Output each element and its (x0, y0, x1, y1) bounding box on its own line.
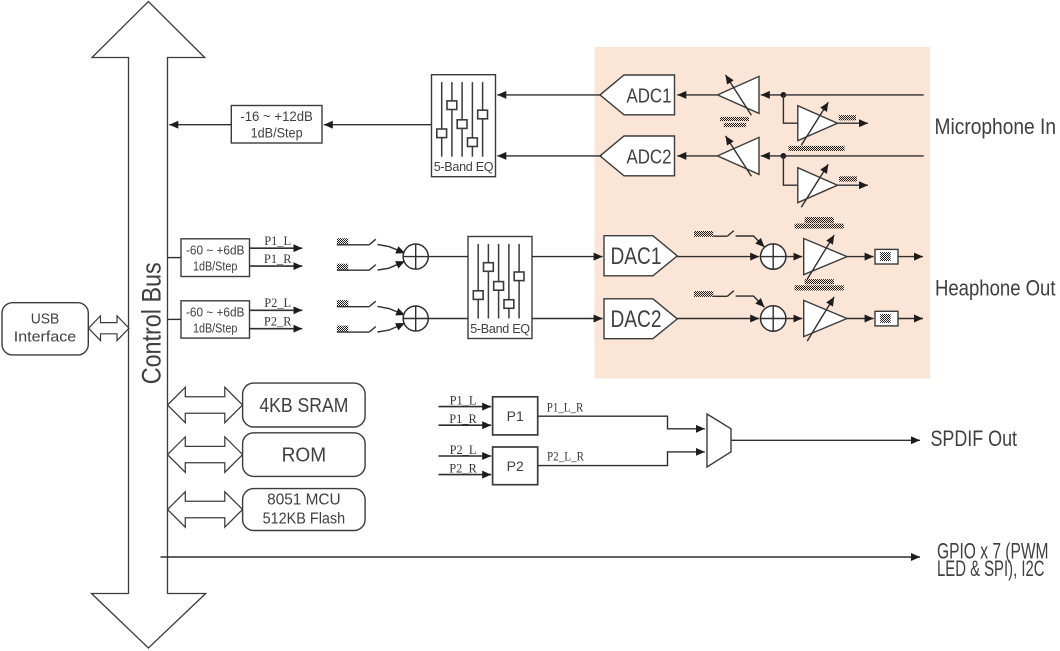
control bus arrow (92, 2, 206, 649)
bidirectional arrow bus to MCU (168, 492, 243, 528)
svg-text:DAC2: DAC2 (611, 306, 662, 333)
wire P2_L to packer (439, 455, 492, 457)
summing node mixer 1 (403, 244, 428, 269)
mic preamp 1 (798, 102, 838, 145)
switch mix P1_R redacted label (337, 264, 348, 271)
svg-text:Control Bus: Control Bus (136, 262, 166, 384)
mic preamp 2 (798, 164, 838, 207)
bidirectional arrow bus to SRAM (168, 387, 243, 423)
equalizer block playback EQ (5-Band EQ) (468, 237, 532, 339)
pixelated label preamp 1 gain (839, 115, 856, 120)
summing node headphone 2 (761, 306, 786, 331)
svg-text:P2_R: P2_R (264, 314, 292, 328)
wire mic preamp 2 output (838, 184, 869, 186)
block P1 packer (493, 397, 538, 435)
wire playback EQ to DAC2 (532, 318, 603, 320)
wire SPDIF output (731, 439, 920, 441)
svg-text:P2_L: P2_L (450, 443, 477, 457)
svg-text:LED & SPI), I2C: LED & SPI), I2C (937, 556, 1045, 581)
pixelated label above amp 1 row b (795, 224, 844, 229)
pixelated label below preamp 2 row b (796, 224, 842, 229)
block ROM (243, 433, 366, 477)
svg-text:DAC1: DAC1 (611, 243, 662, 270)
wire ADC1 to record EQ (497, 94, 600, 96)
variable attenuator ADC1 input (718, 75, 760, 115)
wire P1_L_R to mux (538, 416, 705, 429)
variable attenuator ADC2 input (718, 136, 760, 176)
summing node headphone 1 (761, 244, 786, 269)
switch sidetone 1 (713, 231, 764, 248)
svg-text:SPDIF Out: SPDIF Out (931, 426, 1018, 451)
block USB Interface (2, 303, 88, 355)
svg-text:-60 ~ +6dB: -60 ~ +6dB (186, 243, 245, 258)
svg-text:1dB/Step: 1dB/Step (251, 126, 303, 141)
wire mixer 1 to playback EQ (428, 256, 468, 258)
svg-text:Heaphone Out: Heaphone Out (935, 275, 1056, 300)
block output driver 1 (875, 249, 898, 264)
svg-text:4KB SRAM: 4KB SRAM (259, 395, 348, 417)
switch mix P2_L (337, 301, 405, 315)
pixelated label above amp 1 row a (805, 218, 834, 223)
wire amp to ADC2 (677, 155, 717, 157)
svg-text:ADC2: ADC2 (627, 145, 672, 168)
wire GPIO (161, 556, 921, 558)
pixelated label preamp 2 gain (839, 176, 857, 181)
switch mix P1_L (337, 239, 405, 253)
svg-text:Microphone In: Microphone In (935, 114, 1057, 139)
junction mic2 (781, 153, 787, 159)
svg-text:P1_R: P1_R (264, 252, 292, 266)
wire P1_R to packer (439, 424, 492, 426)
block DAC2 (604, 299, 677, 339)
switch mix P2_R (337, 323, 405, 332)
wire amp 2 to driver (847, 318, 874, 320)
svg-text:512KB Flash: 512KB Flash (263, 511, 346, 528)
block record gain -16 ~ +12dB (231, 106, 322, 144)
wire DAC2 to summing node (677, 318, 759, 320)
wire mic preamp 1 output (838, 122, 869, 124)
wire microphone input 2 (783, 155, 923, 157)
svg-text:P2_L: P2_L (264, 296, 291, 310)
wire headphone output 1 (898, 256, 923, 258)
svg-text:1dB/Step: 1dB/Step (193, 259, 238, 274)
switch mix P2_R redacted label (337, 326, 348, 333)
svg-text:P1_R: P1_R (449, 412, 477, 426)
svg-text:USB: USB (31, 311, 60, 328)
wire P1_L output (250, 247, 303, 249)
analog section background (595, 47, 931, 379)
mux SPDIF selector (707, 414, 731, 467)
svg-text:P2_L_R: P2_L_R (547, 450, 584, 464)
svg-text:8051 MCU: 8051 MCU (267, 492, 341, 509)
pixelated label below amp 1 row a (805, 279, 834, 284)
headphone amp 1 (804, 235, 847, 279)
svg-text:ROM: ROM (282, 445, 327, 467)
svg-text:1dB/Step: 1dB/Step (193, 320, 238, 335)
svg-text:Interface: Interface (14, 329, 77, 346)
svg-text:P2_R: P2_R (449, 461, 477, 475)
wire amp 1 to driver (847, 256, 874, 258)
block 4KB SRAM (243, 383, 366, 427)
wire microphone input 1 (783, 94, 923, 96)
pixelated label below preamp 1 (789, 146, 845, 151)
junction mic1 (781, 92, 787, 98)
svg-text:P1_L: P1_L (264, 234, 291, 248)
wire headphone output 2 (898, 318, 923, 320)
wire playback EQ to DAC1 (532, 256, 603, 258)
wire gain box to control bus (169, 124, 231, 126)
switch mix P1_L redacted label (337, 238, 348, 245)
svg-text:ADC1: ADC1 (627, 84, 672, 107)
block ADC1 (600, 75, 675, 115)
wire summing node to amp 1 (786, 256, 802, 258)
wire junction to mic preamp 1 (783, 95, 797, 123)
wire summing node to amp 2 (786, 318, 802, 320)
block DAC1 (604, 236, 677, 276)
switch mix P2_L redacted label (337, 300, 348, 307)
wire P2_L_R to mux (538, 452, 705, 466)
block ADC2 (600, 136, 675, 176)
svg-text:5-Band EQ: 5-Band EQ (434, 160, 494, 174)
wire EQ to gain box (324, 124, 432, 126)
block 8051 MCU 512KB Flash (243, 489, 366, 531)
wire P1_R output (250, 265, 303, 267)
svg-text:5-Band EQ: 5-Band EQ (470, 322, 530, 336)
pixelated label below preamp 2 row a (805, 217, 833, 221)
headphone amp 2 (804, 297, 847, 341)
summing node mixer 2 (403, 306, 428, 331)
wire mixer 2 to playback EQ (428, 318, 468, 320)
wire P2_L output (250, 309, 303, 311)
pixelated label below amp 1 row b (795, 285, 844, 290)
wire ADC2 to record EQ (497, 155, 601, 157)
pixelated label attenuator 1 row a (720, 117, 749, 121)
bidirectional arrow USB to Control Bus (89, 316, 130, 341)
wire bus to gain P2 (168, 318, 182, 320)
svg-text:P1_L: P1_L (450, 393, 477, 407)
svg-text:P1: P1 (507, 408, 524, 424)
wire bus to gain P1 (168, 257, 182, 259)
wire junction to mic preamp 2 (783, 156, 797, 185)
switch mix P1_R (337, 261, 405, 270)
wire P2_R to packer (439, 474, 492, 476)
pixelated label sidetone switch 1 (694, 231, 713, 237)
wire junction to attenuator (761, 94, 784, 96)
wire amp to ADC1 (677, 94, 717, 96)
wire P2_R output (250, 328, 303, 330)
wire DAC1 to summing node (677, 256, 759, 258)
wire junction to attenuator 2 (761, 155, 784, 157)
block P2 packer (493, 447, 538, 485)
pixelated label attenuator 1 row b (724, 123, 746, 127)
wire P1_L to packer (439, 406, 492, 408)
pixelated label sidetone switch 2 (694, 291, 713, 297)
svg-text:P1_L_R: P1_L_R (547, 401, 584, 415)
block output driver 2 (875, 311, 898, 326)
equalizer block record EQ (5-Band EQ) (432, 75, 496, 177)
bidirectional arrow bus to ROM (168, 437, 243, 473)
svg-text:P2: P2 (507, 458, 524, 474)
svg-text:-60 ~ +6dB: -60 ~ +6dB (186, 304, 245, 319)
switch sidetone 2 (713, 291, 764, 308)
svg-text:-16 ~ +12dB: -16 ~ +12dB (240, 109, 313, 124)
